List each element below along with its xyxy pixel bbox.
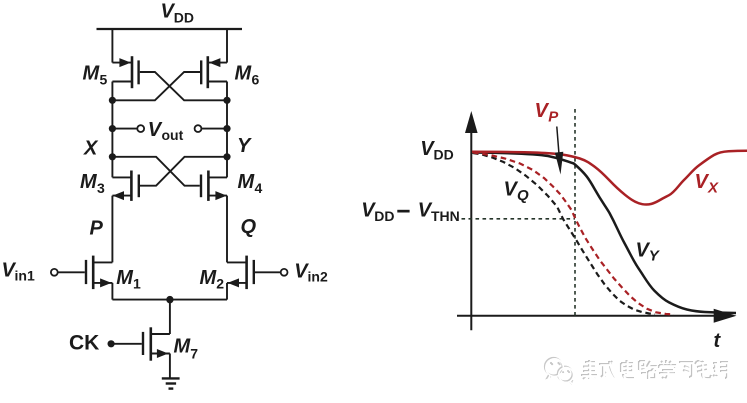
curve VY (solid black) (472, 153, 736, 314)
dashed level VDD-VTHN (462, 218, 576, 220)
svg-text:M: M (238, 171, 256, 193)
svg-text:THN: THN (431, 208, 460, 224)
wire right column Q (226, 196, 228, 263)
transistor M1 (58, 256, 113, 290)
svg-text:2: 2 (216, 275, 224, 291)
svg-text:M: M (116, 267, 134, 289)
svg-text:Q: Q (517, 187, 529, 204)
svg-text:in2: in2 (308, 268, 328, 284)
svg-text:M: M (83, 63, 101, 85)
node X dot (109, 153, 116, 160)
open terminal right (195, 125, 202, 132)
transistor M5 (112, 56, 227, 100)
tail node dot (166, 296, 173, 303)
horizontal axis (457, 315, 716, 317)
vertical axis (470, 131, 472, 330)
svg-text:M: M (174, 336, 192, 358)
svg-text:P: P (548, 109, 559, 126)
CK terminal dot (108, 340, 115, 347)
wire left column bottom (111, 283, 113, 300)
svg-text:DD: DD (174, 10, 194, 26)
Vout taps (112, 128, 227, 130)
curve VP (dashed red) (473, 153, 674, 315)
dotted vertical guide (574, 109, 576, 316)
svg-text:P: P (90, 218, 104, 240)
curve VQ (dashed black) (473, 153, 655, 314)
node dot X tap (109, 125, 116, 132)
svg-text:Y: Y (237, 135, 252, 157)
svg-text:6: 6 (252, 72, 260, 88)
input terminal Vin2 (281, 269, 288, 276)
transistor M6 (112, 56, 227, 100)
node dot Y tap (223, 125, 230, 132)
curve VX (solid red) (472, 151, 747, 205)
node Y dot (223, 153, 230, 160)
wire right column bottom (226, 283, 228, 300)
svg-text:X: X (83, 138, 99, 160)
node dot left (M5 drain / gate M6) (109, 97, 116, 104)
wire right column mid (226, 82, 228, 178)
svg-text:7: 7 (190, 345, 198, 361)
svg-text:in1: in1 (15, 267, 35, 283)
annotation arrow VP (557, 127, 559, 154)
svg-text:M: M (80, 171, 98, 193)
transistor M4 (112, 157, 227, 201)
node dot right (M6 drain / gate M5) (223, 97, 230, 104)
svg-text:3: 3 (97, 180, 105, 196)
transistor M3 (112, 157, 227, 201)
svg-text:4: 4 (255, 180, 263, 196)
svg-text:5: 5 (100, 72, 108, 88)
svg-text:M: M (200, 267, 218, 289)
svg-text:DD: DD (374, 208, 394, 224)
svg-text:DD: DD (434, 146, 454, 162)
transistor M7 (111, 327, 170, 378)
wire right column top (226, 29, 228, 63)
input terminal Vin1 (51, 269, 58, 276)
ground (162, 378, 180, 388)
svg-text:out: out (162, 127, 184, 143)
transistor M2 (227, 256, 281, 290)
svg-text:Q: Q (241, 216, 257, 238)
wire left column mid (111, 82, 113, 178)
svg-text:CK: CK (69, 332, 99, 355)
svg-text:M: M (235, 63, 253, 85)
svg-text:X: X (707, 180, 719, 197)
wire left column top (111, 29, 113, 63)
svg-text:1: 1 (133, 275, 141, 291)
common source rail (112, 299, 227, 301)
wire tail to M7 (169, 300, 171, 334)
open terminal left (137, 125, 144, 132)
wire left column P (111, 196, 113, 263)
VDD rail (97, 28, 243, 30)
svg-text:V: V (535, 100, 550, 122)
